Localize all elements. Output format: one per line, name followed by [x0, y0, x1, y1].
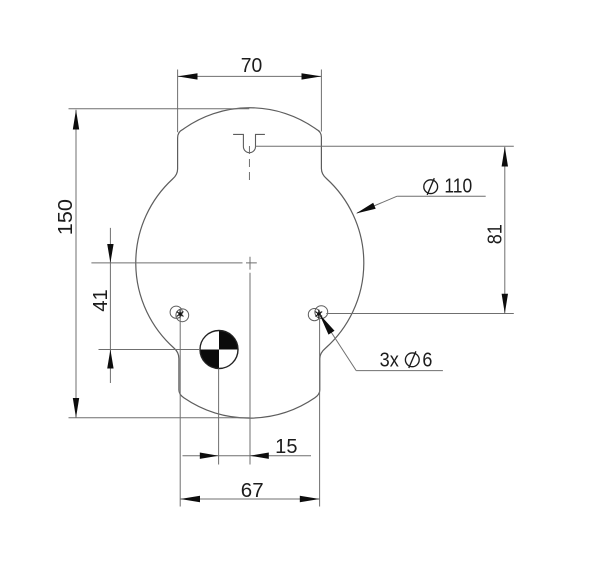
- svg-text:6: 6: [422, 349, 432, 371]
- svg-text:3x: 3x: [380, 349, 399, 371]
- svg-text:70: 70: [241, 55, 262, 77]
- svg-text:150: 150: [55, 199, 77, 235]
- svg-text:15: 15: [275, 436, 297, 458]
- svg-text:41: 41: [90, 289, 112, 312]
- svg-text:67: 67: [241, 480, 264, 502]
- svg-text:110: 110: [444, 176, 472, 198]
- svg-text:81: 81: [484, 224, 506, 244]
